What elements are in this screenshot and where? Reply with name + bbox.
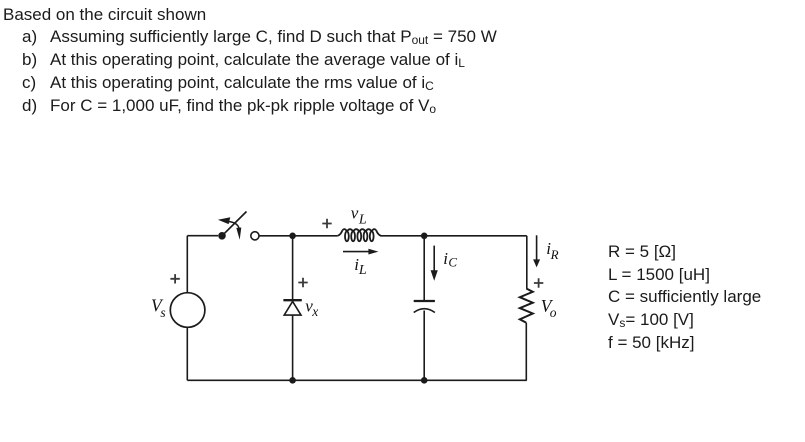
plus sign at source xyxy=(170,274,179,283)
svg-text:R: R xyxy=(550,247,559,262)
switch motion arrow (curved, two heads) xyxy=(218,217,241,239)
right rail upper wire xyxy=(526,236,528,289)
node diode top xyxy=(289,233,296,240)
current arrow iC xyxy=(431,246,438,281)
node diode bottom xyxy=(289,377,296,384)
plus sign at load xyxy=(534,278,543,287)
voltage source Vs xyxy=(170,293,205,328)
switch arm xyxy=(222,212,247,236)
label Vo xyxy=(541,296,557,320)
capacitor wire lower xyxy=(423,311,425,381)
plus sign at inductor xyxy=(322,219,331,228)
current arrow iR xyxy=(533,235,540,267)
switch pole dot xyxy=(218,232,226,240)
current arrow iL xyxy=(343,249,378,255)
svg-text:C: C xyxy=(448,255,457,270)
label iC xyxy=(443,249,457,270)
label Vs xyxy=(151,296,166,320)
wire bottom rail xyxy=(187,379,527,381)
wire switch to diode node xyxy=(259,235,338,237)
svg-text:L: L xyxy=(358,263,367,278)
label iR xyxy=(546,239,558,262)
svg-text:s: s xyxy=(160,305,165,320)
label vL xyxy=(351,203,367,227)
capacitor wire upper xyxy=(423,236,425,300)
inductor L coil xyxy=(338,229,381,241)
plus sign at diode xyxy=(298,278,307,287)
svg-text:x: x xyxy=(311,304,318,319)
svg-text:L: L xyxy=(358,213,367,228)
right rail lower wire xyxy=(525,323,527,381)
svg-text:o: o xyxy=(550,305,557,320)
svg-text:v: v xyxy=(351,203,359,222)
label iL xyxy=(354,255,367,278)
capacitor C (flat + curved plate) xyxy=(414,301,435,313)
node capacitor top xyxy=(421,233,428,240)
diode D (cathode bar + triangle) xyxy=(283,300,301,315)
switch throw terminal (open circle) xyxy=(251,232,259,240)
diode wire upper xyxy=(292,236,294,300)
diode wire lower xyxy=(292,315,294,380)
node capacitor bottom xyxy=(421,377,428,384)
resistor R zigzag xyxy=(520,289,533,323)
wire inductor to cap node xyxy=(380,235,527,237)
wire top-left segment xyxy=(187,235,218,237)
label vx xyxy=(305,296,318,319)
wire left rail (bottom) xyxy=(186,327,188,380)
wire left rail (top) xyxy=(186,236,188,293)
